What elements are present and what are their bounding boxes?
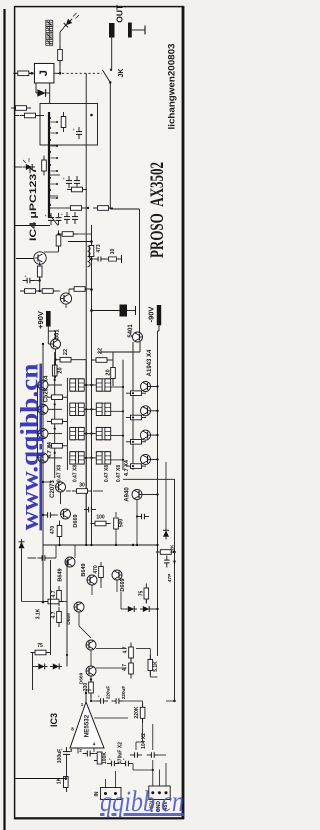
svg-text:A1943 X4: A1943 X4	[147, 349, 153, 376]
svg-text:lichangwen200803: lichangwen200803	[167, 43, 177, 129]
svg-text:470: 470	[93, 565, 99, 574]
svg-text:D669: D669	[66, 613, 72, 625]
svg-text:D669: D669	[73, 514, 79, 527]
svg-text:500: 500	[119, 519, 125, 528]
svg-text:www.qqibb.cn: www.qqibb.cn	[14, 363, 43, 530]
svg-text:+: +	[63, 176, 66, 181]
svg-text:100K: 100K	[102, 752, 108, 764]
svg-text:5.1K: 5.1K	[153, 661, 159, 672]
svg-text:220uF: 220uF	[121, 686, 126, 699]
svg-text:0.47 X8: 0.47 X8	[116, 465, 122, 482]
svg-text:4.7 X4: 4.7 X4	[47, 441, 53, 458]
svg-text:+: +	[123, 756, 126, 761]
svg-text:A940: A940	[125, 487, 131, 502]
svg-text:75: 75	[37, 643, 43, 649]
svg-text:JK: JK	[118, 69, 125, 78]
svg-text:J: J	[38, 70, 50, 76]
svg-text:OUT: OUT	[115, 4, 125, 23]
svg-text:B649: B649	[81, 563, 87, 576]
svg-text:4.7: 4.7	[51, 590, 57, 597]
svg-text:473: 473	[96, 244, 102, 253]
svg-text:0.47 X8: 0.47 X8	[104, 465, 110, 482]
svg-text:-90V: -90V	[146, 307, 155, 323]
svg-text:0.47 X8: 0.47 X8	[73, 465, 79, 482]
svg-text:NE5532: NE5532	[84, 714, 91, 737]
svg-text:100: 100	[96, 515, 105, 521]
svg-text:2: 2	[79, 748, 82, 753]
svg-text:4.7: 4.7	[122, 664, 128, 671]
svg-text:30: 30	[79, 483, 85, 489]
svg-text:4: 4	[93, 742, 96, 747]
svg-text:qqibb.cn: qqibb.cn	[100, 785, 184, 818]
svg-text:4.7 X4: 4.7 X4	[124, 459, 130, 476]
svg-text:22: 22	[98, 348, 104, 354]
svg-text:4.7: 4.7	[51, 611, 57, 618]
svg-text:+: +	[24, 273, 27, 278]
svg-text:IC4 μPC1237: IC4 μPC1237	[28, 167, 39, 241]
svg-text:D669: D669	[120, 578, 126, 591]
svg-text:+: +	[61, 212, 64, 217]
svg-text:B649: B649	[58, 568, 64, 581]
svg-text:0.47 X8: 0.47 X8	[57, 465, 63, 482]
svg-text:D669: D669	[78, 672, 84, 684]
svg-text:+: +	[73, 127, 76, 132]
svg-text:+: +	[98, 694, 101, 699]
svg-text:4.7: 4.7	[123, 646, 129, 653]
svg-text:220uF: 220uF	[106, 686, 111, 699]
svg-text:+90V: +90V	[36, 311, 45, 329]
svg-text:IC3: IC3	[49, 713, 59, 727]
svg-text:3: 3	[70, 748, 73, 753]
svg-text:PROSO AX3502: PROSO AX3502	[147, 162, 168, 258]
svg-text:3.1K: 3.1K	[36, 608, 42, 619]
svg-text:1: 1	[81, 702, 84, 707]
svg-text:22: 22	[63, 349, 69, 355]
svg-text:100uF: 100uF	[57, 749, 63, 763]
svg-text:220K: 220K	[134, 706, 140, 718]
svg-text:47P: 47P	[167, 573, 173, 582]
svg-text:10: 10	[110, 249, 116, 255]
svg-text:470: 470	[50, 526, 56, 535]
svg-text:20: 20	[57, 367, 63, 373]
svg-text:+: +	[109, 756, 112, 761]
svg-text:104 X2: 104 X2	[141, 733, 147, 749]
svg-text:8: 8	[71, 727, 74, 732]
svg-text:+: +	[45, 213, 48, 218]
